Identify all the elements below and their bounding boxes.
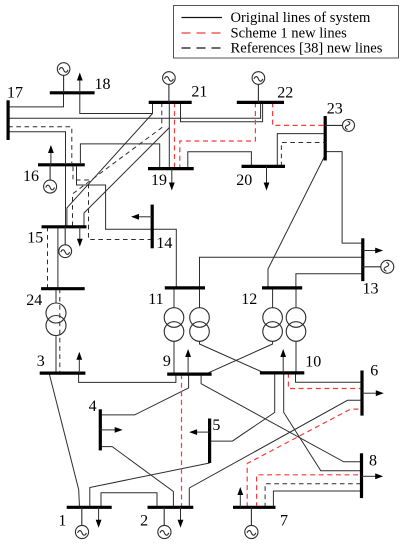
new line scheme1 21-19 (red) [174, 102, 176, 168]
load arrow bus 1 [96, 507, 102, 528]
svg-text:16: 16 [23, 168, 39, 185]
bus 1 [67, 506, 112, 509]
load arrow bus 8 [362, 473, 384, 479]
wire 16-14 [77, 167, 153, 230]
bus 15 [42, 225, 87, 228]
generator G13 [363, 260, 394, 273]
generator G16 [44, 165, 57, 193]
wire 4-9 [100, 374, 188, 415]
transformer T9-12 [263, 308, 283, 342]
svg-text:2: 2 [140, 513, 148, 530]
bus 10 [260, 371, 304, 374]
generator G21 [163, 72, 176, 103]
svg-text:15: 15 [27, 230, 43, 247]
svg-text:7: 7 [280, 513, 288, 530]
load arrow bus 9 [185, 349, 191, 374]
wire 1-3 [49, 373, 79, 507]
wire 17-18 [8, 93, 63, 107]
bus 20 [242, 165, 286, 168]
bus 18 [50, 91, 95, 94]
bus 21 [149, 101, 192, 104]
svg-text:21: 21 [191, 83, 207, 100]
svg-text:24: 24 [26, 292, 42, 309]
wire 9-11 transformer branch [173, 288, 175, 374]
svg-text:4: 4 [89, 398, 97, 415]
svg-text:Original lines of system: Original lines of system [231, 10, 371, 26]
bus 11 [165, 286, 205, 289]
new line refs 16-14 (black dashed) [73, 167, 152, 240]
wire 10-11 transformer branch [200, 288, 265, 373]
wire 2-6 [189, 400, 362, 507]
wire 6-10 [296, 373, 362, 382]
wire 21-15 circuit 1 [67, 102, 153, 226]
bus 24 [41, 287, 85, 290]
legend sample: original lines [182, 17, 223, 19]
svg-text:3: 3 [37, 353, 45, 370]
bus 8 [360, 453, 363, 498]
new line scheme1 9-2 (red) [181, 374, 183, 507]
generator G2 [158, 507, 171, 538]
bus 3 [40, 372, 86, 375]
bus 23 [324, 116, 327, 161]
bus 4 [99, 409, 102, 450]
wire 19-20 [188, 152, 252, 169]
load arrow bus 16 [48, 145, 54, 165]
bus 9 [167, 373, 211, 376]
transformer T10-12 [286, 308, 306, 342]
generator G1 [75, 507, 88, 538]
wire 12-23 [268, 155, 325, 288]
wire 15-16 [65, 167, 67, 227]
bus 14 [151, 205, 154, 249]
bus 22 [237, 101, 284, 104]
wire 16-17 [8, 132, 65, 163]
wire 12-13 [296, 274, 363, 288]
bus 5 [208, 419, 211, 464]
bus 12 [262, 286, 302, 289]
svg-text:1: 1 [58, 513, 66, 530]
wire 20-23 [277, 134, 325, 167]
new line scheme1 22-19 (red) [180, 102, 256, 168]
bus 7 [233, 506, 276, 509]
wire 24-3 transformer branch [55, 289, 57, 373]
load arrow bus 14 [131, 214, 152, 220]
load arrow bus 2 [178, 507, 184, 528]
svg-text:20: 20 [236, 172, 252, 189]
load arrow bus 3 [76, 352, 82, 373]
svg-text:18: 18 [95, 76, 111, 93]
legend sample: scheme 1 new lines [182, 32, 223, 34]
generator G18 [57, 63, 70, 93]
transformer T9-11 [164, 308, 184, 342]
wire 18-21 circuit 1 [80, 93, 153, 114]
transformer T10-11 [190, 308, 210, 342]
svg-text:11: 11 [148, 291, 163, 308]
DASHED [8, 102, 362, 507]
wire 17-22 [8, 102, 261, 118]
new line refs 20-23 (black dashed) [281, 143, 325, 167]
new line scheme1 7-8 (red) [257, 475, 362, 508]
svg-text:17: 17 [7, 84, 23, 101]
wire 8-9 [201, 374, 361, 462]
bus 2 [148, 506, 194, 509]
generator G22 [252, 72, 265, 103]
load arrow bus 7 [237, 487, 243, 507]
new line refs 17-16 (black dashed) [8, 127, 72, 163]
wire 7-8 [273, 491, 361, 507]
legend sample: references new lines [182, 47, 223, 49]
bus 19 [148, 167, 194, 170]
svg-text:13: 13 [363, 281, 379, 298]
wire 9-12 transformer branch [206, 288, 273, 374]
wire 2-4 [100, 447, 173, 508]
svg-text:9: 9 [163, 353, 171, 370]
wire 21-19 [168, 102, 170, 168]
svg-text:Scheme 1 new lines: Scheme 1 new lines [231, 25, 348, 41]
wire 11-13 [200, 257, 363, 288]
load arrow bus 13 [363, 248, 383, 254]
svg-text:19: 19 [151, 172, 167, 189]
wire 14-11 [152, 229, 176, 288]
load arrow bus 10 [280, 349, 286, 373]
generator G7 [245, 507, 258, 538]
svg-text:23: 23 [327, 101, 343, 118]
svg-text:12: 12 [241, 291, 257, 308]
wire 3-9 [79, 373, 176, 382]
bus 16 [38, 163, 85, 166]
svg-text:8: 8 [369, 453, 377, 470]
load arrow bus 20 [264, 166, 270, 190]
load arrow bus 18 [77, 73, 83, 93]
LEGEND [174, 6, 399, 59]
bus 6 [360, 371, 363, 416]
legend box [174, 6, 399, 59]
new line refs 24-3 (black dashed) [59, 289, 61, 373]
load arrow bus 15 [77, 227, 83, 247]
wire 1-2 [101, 493, 157, 508]
svg-text:References [38] new lines: References [38] new lines [231, 40, 383, 56]
wire 10-12 transformer branch [295, 288, 297, 373]
wire 5-10 [210, 373, 275, 441]
svg-text:14: 14 [156, 235, 172, 252]
bus 13 [361, 238, 364, 281]
bus 17 [7, 100, 10, 140]
wire 1-5 [90, 463, 210, 507]
new line scheme1 22-23 (red) [273, 102, 326, 125]
new line refs 21-15 (black dashed) [73, 102, 162, 226]
wire 15-24 [57, 227, 59, 289]
wire 21-15 circuit 2 [84, 128, 169, 227]
svg-text:10: 10 [305, 354, 321, 371]
svg-text:6: 6 [370, 363, 378, 380]
load arrow bus 5 [189, 429, 210, 435]
load arrow bus 6 [362, 390, 384, 396]
BUSES [8, 93, 363, 508]
transformer T3-24 [46, 303, 66, 336]
svg-text:22: 22 [277, 85, 293, 102]
wire 8-10 [284, 373, 362, 471]
new line scheme1 7-6 (red) [247, 409, 362, 507]
wire 13-23 [325, 152, 363, 244]
svg-text:5: 5 [212, 417, 220, 434]
load arrow bus 4 [100, 427, 122, 433]
load arrow bus 19 [169, 169, 175, 191]
new line scheme1 10-6 (red) [288, 373, 361, 389]
wire 16-19 [80, 144, 159, 169]
new line refs 7-8 (black dashed) [265, 484, 361, 508]
new line refs 15-24 (black dashed) [47, 227, 49, 289]
generator G23 [325, 119, 354, 131]
generator G15 [59, 227, 72, 258]
wire 21-22 [181, 102, 263, 121]
